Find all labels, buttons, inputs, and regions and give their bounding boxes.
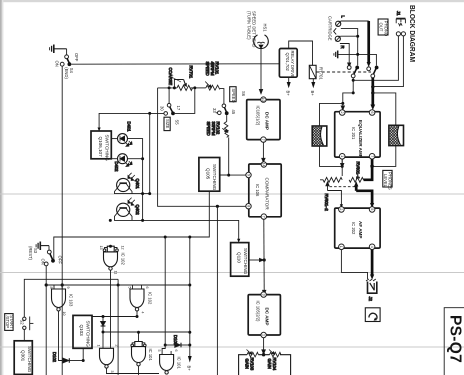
node S4on/gateA xyxy=(61,283,64,286)
svg-text:3: 3 xyxy=(110,371,114,373)
svg-text:5: 5 xyxy=(157,350,161,352)
svg-text:B+: B+ xyxy=(187,366,192,372)
wire Q103 out down xyxy=(82,348,84,360)
svg-text:12: 12 xyxy=(121,246,125,250)
wire Q402 emitter rail to Q110 xyxy=(115,213,239,239)
node EQ L in xyxy=(341,102,344,105)
node x357 xyxy=(356,35,359,38)
wire Q105 output down-left xyxy=(54,191,210,260)
wire EQ right loop bottom xyxy=(372,146,396,167)
headphone jack J2 xyxy=(366,279,377,302)
node R y92.9 xyxy=(371,91,374,94)
svg-text:D103: D103 xyxy=(173,335,178,346)
node comp out Q110 xyxy=(263,258,266,261)
svg-text:6: 6 xyxy=(370,112,374,114)
switching Q106,107 box xyxy=(91,131,111,161)
wire L coil to R muting (thick feed) xyxy=(341,20,369,22)
node x165 y345 xyxy=(164,344,167,347)
relay RY701 xyxy=(309,65,323,80)
label START/STOP xyxy=(5,314,14,331)
svg-text:10: 10 xyxy=(261,98,265,102)
svg-text:RV701: RV701 xyxy=(189,66,194,79)
switch S4 (END) xyxy=(55,49,79,80)
wire S6 common to RV102 xyxy=(226,115,228,121)
wire S3 ON contact down xyxy=(45,266,47,375)
svg-text:14: 14 xyxy=(262,163,266,167)
wire G2 output down xyxy=(136,311,138,317)
svg-text:4: 4 xyxy=(140,312,144,314)
wire S4 common to relay drive xyxy=(71,63,279,65)
svg-text:SWITCHING: SWITCHING xyxy=(212,164,217,191)
muting switch S1 R section xyxy=(367,66,379,78)
LED D401 xyxy=(118,122,133,147)
comparator IC106 box xyxy=(246,162,281,220)
node Q401 rail joins xyxy=(141,192,144,195)
svg-text:13: 13 xyxy=(99,246,103,250)
potentiometer RV601-2 xyxy=(320,177,342,211)
svg-text:SPEED: SPEED xyxy=(231,88,236,102)
label PHONES LEVEL xyxy=(383,170,393,189)
phototransistor Q401 xyxy=(117,173,140,192)
svg-text:COARSE: COARSE xyxy=(168,68,173,86)
svg-text:Q402: Q402 xyxy=(135,205,140,216)
wire DC2 out to motor block xyxy=(262,338,265,354)
node bus D402 xyxy=(141,157,144,160)
node Q402 rail left xyxy=(109,219,112,222)
node RV102 y175 xyxy=(227,174,230,177)
equalizer amp IC201 box xyxy=(335,110,380,159)
node rail S5 common riser xyxy=(193,86,196,89)
ground S4 xyxy=(50,45,67,54)
ground S3 xyxy=(36,242,49,251)
NAND gate IC102 G6 with input yoke xyxy=(131,342,153,366)
svg-text:Q105: Q105 xyxy=(206,168,211,180)
switching Q103 box xyxy=(73,315,92,348)
svg-text:SWITCHING: SWITCHING xyxy=(86,321,91,348)
diode D102 bottom-left xyxy=(52,352,83,363)
pushbutton S2 xyxy=(20,279,119,375)
node rail S5-17 riser xyxy=(168,86,171,89)
node motor block in xyxy=(262,353,265,356)
svg-text:D401: D401 xyxy=(126,122,131,133)
svg-text:D102: D102 xyxy=(52,352,57,363)
fold line 2 xyxy=(0,272,464,274)
node feed/S2bus xyxy=(117,284,120,287)
connector J1 xyxy=(396,11,406,36)
node Q402 rail bus142 xyxy=(141,219,144,222)
svg-text:SWITCHING: SWITCHING xyxy=(104,135,109,162)
wire EQ out left channel down xyxy=(341,159,344,176)
wire R coil lower to L muting xyxy=(340,44,351,67)
wire EQ left loop xyxy=(320,103,343,166)
potentiometer RV701 xyxy=(168,66,194,91)
svg-text:RY701: RY701 xyxy=(319,67,324,80)
svg-text:OUT: OUT xyxy=(379,23,384,32)
svg-text:S2: S2 xyxy=(20,320,25,326)
wire box to D402 xyxy=(111,158,117,160)
switch S6 45/33 xyxy=(212,104,236,115)
thick wire R muting out down to EQ xyxy=(370,78,375,110)
arrow into AF top-left xyxy=(340,204,343,208)
switch S5 17/30 xyxy=(160,89,182,115)
thick wiper RV601-1 to AF xyxy=(354,181,374,208)
wire AF out left to J2 xyxy=(341,250,367,279)
svg-text:4: 4 xyxy=(370,246,374,248)
diode D103 row y345 xyxy=(165,335,190,347)
DC amp IC105(1/2) box xyxy=(247,97,280,142)
svg-text:7: 7 xyxy=(262,216,266,218)
wire R to J1 xyxy=(373,36,404,87)
svg-text:1: 1 xyxy=(340,155,344,157)
node comparator pin8 bus xyxy=(216,205,219,208)
svg-text:1: 1 xyxy=(96,345,100,347)
svg-text:(TURN TABLE): (TURN TABLE) xyxy=(247,11,252,40)
speed det head HS1 xyxy=(254,24,269,49)
svg-text:Q401: Q401 xyxy=(135,179,140,190)
svg-text:2: 2 xyxy=(339,208,343,210)
NAND gate IC101 G5 xyxy=(157,350,182,375)
label S5 SIZE xyxy=(164,117,180,130)
svg-text:B+: B+ xyxy=(286,91,291,97)
node diode row Q103 xyxy=(82,359,85,362)
svg-text:IC 106: IC 106 xyxy=(255,184,260,197)
wire R loop top to hatch2 xyxy=(373,93,396,125)
svg-text:RV601–1: RV601–1 xyxy=(356,162,361,180)
bus vertical x189.8 xyxy=(189,237,191,356)
node S3on/gateA xyxy=(45,283,48,286)
wire S4 ON contact down to logic xyxy=(61,66,63,375)
svg-text:SPEED: SPEED xyxy=(205,62,210,76)
wire RV601-2 wiper to AF xyxy=(328,191,342,206)
svg-text:LEVEL: LEVEL xyxy=(383,174,388,188)
dashed mechanical link RY701 to muting switch xyxy=(317,71,372,73)
wire head to DC amp pin 10 xyxy=(259,49,262,94)
ground cartridge xyxy=(334,51,338,59)
wire x165 from S3 row down xyxy=(164,237,166,345)
svg-text:S6: S6 xyxy=(241,91,246,97)
svg-text:7: 7 xyxy=(261,139,265,141)
svg-text:Q106,107: Q106,107 xyxy=(98,137,103,158)
svg-text:J2: J2 xyxy=(368,297,373,302)
potentiometer RV103 GAIN xyxy=(245,350,259,371)
wire Q105/RV102 to comparator pin xyxy=(220,174,246,176)
node D101 y332 xyxy=(102,331,105,334)
phototransistor Q402 xyxy=(117,198,140,217)
svg-text:1: 1 xyxy=(261,334,265,336)
svg-text:Q701,702: Q701,702 xyxy=(285,53,290,72)
wire Q103 row y316.5 xyxy=(92,316,137,318)
svg-text:IC 101: IC 101 xyxy=(177,357,182,370)
wire RV102 to Q105 input xyxy=(220,137,229,175)
wire G6 feed from y332 xyxy=(138,332,140,341)
NAND gate IC102 G2 xyxy=(127,285,152,314)
svg-text:ON: ON xyxy=(55,61,60,67)
svg-text:IC 201: IC 201 xyxy=(351,127,356,140)
wire R coil to x357 node xyxy=(341,35,358,37)
node G2 out xyxy=(136,315,139,318)
NAND gate IC102 G3 with input network xyxy=(99,246,125,275)
svg-text:GAIN: GAIN xyxy=(245,359,250,369)
svg-text:5: 5 xyxy=(127,287,131,289)
wire G4 out right xyxy=(107,368,160,373)
svg-text:30: 30 xyxy=(160,106,165,111)
svg-text:IC 102: IC 102 xyxy=(121,253,126,266)
svg-text:IC 202: IC 202 xyxy=(351,222,356,235)
switching Q110 box xyxy=(231,243,249,277)
svg-text:(REST): (REST) xyxy=(28,246,33,261)
wire x149.7 riser xyxy=(149,113,151,193)
svg-text:Q103: Q103 xyxy=(79,325,84,337)
hatched eq curve box 1 xyxy=(312,126,327,146)
wire G3 out to G4 input xyxy=(110,270,112,348)
wire Q110 output to comparator out line xyxy=(249,258,264,261)
svg-text:8: 8 xyxy=(49,287,53,289)
svg-text:GAIN: GAIN xyxy=(267,359,272,369)
svg-text:33: 33 xyxy=(212,108,217,113)
svg-text:9: 9 xyxy=(246,174,250,176)
node bus189 gate feed xyxy=(188,284,191,287)
svg-text:3: 3 xyxy=(261,294,265,296)
svg-text:10: 10 xyxy=(62,312,66,316)
wire rail left branch down xyxy=(158,88,247,206)
svg-text:7: 7 xyxy=(370,155,374,157)
svg-text:CARTRIDGE: CARTRIDGE xyxy=(328,16,333,41)
node gnd row x357 xyxy=(356,53,359,56)
wire D402 to bus xyxy=(128,158,143,160)
svg-text:2: 2 xyxy=(340,112,344,114)
wire y332 row xyxy=(103,331,190,333)
node L y92.9 xyxy=(352,91,355,94)
wire speed net main rail xyxy=(158,87,177,89)
potentiometer RV104 GAIN xyxy=(267,350,281,371)
svg-text:D402: D402 xyxy=(114,162,119,173)
svg-text:SIZE: SIZE xyxy=(165,119,170,129)
svg-text:11: 11 xyxy=(114,271,118,275)
wire L coil lower to x357 xyxy=(341,29,358,66)
cartridge L coil xyxy=(336,16,346,27)
svg-text:COMPARATOR: COMPARATOR xyxy=(265,178,270,211)
label S6 SPEED xyxy=(230,87,246,103)
node G6 feed xyxy=(137,331,140,334)
svg-text:DC AMP: DC AMP xyxy=(265,308,270,326)
node EQ bl pin xyxy=(341,165,344,168)
wire relay drive to RY701 xyxy=(289,41,313,65)
node G3 input xyxy=(109,245,112,248)
potentiometer RV601-1 xyxy=(349,162,363,183)
svg-text:6: 6 xyxy=(145,287,149,289)
svg-text:RV601–2: RV601–2 xyxy=(324,194,329,212)
potentiometer RV101 45RPM SPEED xyxy=(205,62,220,91)
svg-text:IC105(1/2): IC105(1/2) xyxy=(256,106,261,126)
B+ arrow bottom bus189 xyxy=(187,356,192,371)
diode D101 vertical xyxy=(101,317,106,346)
page corner border xyxy=(444,308,464,375)
wire G1 out down to bottom row xyxy=(59,311,63,361)
wire Q401 emitter rail xyxy=(115,188,150,193)
svg-text:IC 103: IC 103 xyxy=(69,294,74,307)
hatched eq curve box 2 xyxy=(389,125,404,145)
fold line 1 xyxy=(0,193,464,195)
potentiometer RV102 33RPM SPEED xyxy=(206,122,229,138)
muting switch S1 L section xyxy=(347,66,359,78)
DC amp IC105(2/2) box xyxy=(248,292,280,338)
svg-text:SWITCHING: SWITCHING xyxy=(27,346,32,373)
B+ arrow at RY701 xyxy=(310,79,315,97)
svg-text:OFF: OFF xyxy=(74,53,79,62)
node D101 top xyxy=(102,315,105,318)
fold line 3 xyxy=(0,346,464,348)
wire L out to J1 xyxy=(353,36,398,80)
bus vertical x217.4 xyxy=(216,206,218,375)
arrow into EQ top-left pin xyxy=(341,103,344,110)
node RV701 left xyxy=(173,86,176,89)
B+ arrow at relay drive xyxy=(286,77,291,96)
motor block box xyxy=(239,355,291,375)
svg-text:9: 9 xyxy=(66,287,70,289)
svg-text:/STOP: /STOP xyxy=(5,316,10,329)
svg-text:45: 45 xyxy=(231,110,236,115)
svg-text:OFF: OFF xyxy=(58,256,63,265)
svg-text:J1: J1 xyxy=(396,11,401,16)
thick wire down to muting R xyxy=(367,21,371,67)
wire DC1 pin7 to comparator pin14 xyxy=(262,142,265,162)
wire rail RV701 to RV101 xyxy=(191,87,206,89)
scan edge top xyxy=(0,0,464,2)
node EQ br pin loop xyxy=(370,165,373,168)
switching Q105 box xyxy=(199,158,220,192)
NAND gate IC101 G4 xyxy=(96,345,118,373)
node bus189 y345 xyxy=(188,344,191,347)
node bus189 y332 xyxy=(188,331,191,334)
wire L to EQ pin in xyxy=(343,93,353,104)
wire G6 out down xyxy=(138,366,140,375)
wire box to D401 xyxy=(111,138,117,140)
switching Q301 box xyxy=(14,341,32,375)
svg-text:Q110: Q110 xyxy=(237,252,242,263)
node bus189 start xyxy=(188,236,191,239)
cartridge R coil xyxy=(335,36,345,48)
cartridge chevron xyxy=(334,28,337,34)
svg-text:EQUALIZER AMP: EQUALIZER AMP xyxy=(358,120,363,158)
arrow into Q106 box xyxy=(98,128,101,132)
svg-text:S5: S5 xyxy=(175,120,180,126)
wire S5 common riser xyxy=(175,89,195,113)
wire rail to S6 xyxy=(220,89,224,104)
svg-text:AF AMP: AF AMP xyxy=(358,221,363,238)
dashed gang link RV601 xyxy=(330,186,356,188)
svg-text:Q301: Q301 xyxy=(20,350,25,362)
svg-text:IC 101: IC 101 xyxy=(148,349,153,362)
svg-text:IC 102: IC 102 xyxy=(148,292,153,305)
svg-text:PS-Q7: PS-Q7 xyxy=(447,315,464,363)
wire comparator pin out to DC2 xyxy=(263,219,266,294)
svg-text:6: 6 xyxy=(174,350,178,352)
wire x165 to G5 input xyxy=(162,345,165,351)
svg-text:R: R xyxy=(340,46,345,49)
svg-text:B+: B+ xyxy=(310,91,315,97)
svg-text:SPEED: SPEED xyxy=(206,122,211,136)
LED D402 xyxy=(114,154,132,172)
svg-text:DC AMP: DC AMP xyxy=(265,112,270,130)
svg-text:BLOCK DIAGRAM: BLOCK DIAGRAM xyxy=(408,5,417,62)
node x165 top xyxy=(164,236,167,239)
wire D401 D402 cathode bus xyxy=(128,139,143,221)
AF amp IC202 box xyxy=(335,207,380,250)
svg-text:17: 17 xyxy=(176,106,181,111)
node L out J1 tap xyxy=(352,79,355,82)
wire L muting out down xyxy=(352,78,354,93)
scan edge left xyxy=(0,0,2,375)
svg-text:IC 105(2/2): IC 105(2/2) xyxy=(256,301,261,323)
switch S3 (REST) xyxy=(28,246,63,266)
thick wire EQ out right channel xyxy=(364,159,375,180)
svg-text:8: 8 xyxy=(246,205,250,207)
svg-text:SWITCHING: SWITCHING xyxy=(243,248,248,275)
wire S5-30 row to switching Q106 xyxy=(99,113,164,128)
svg-text:HS1: HS1 xyxy=(263,24,268,33)
svg-text:1: 1 xyxy=(339,246,343,248)
relay drive box Q701,702 xyxy=(279,49,297,79)
arrow into Q110 xyxy=(237,239,240,243)
headphones icon box xyxy=(365,308,380,322)
node R y86.8 xyxy=(371,85,374,88)
wire cartridge ground to muting R fixed xyxy=(338,54,377,65)
wire loop up to EQ pin4 xyxy=(341,159,343,166)
svg-text:(END): (END) xyxy=(64,67,69,79)
NAND gate IC103 G1 xyxy=(49,285,74,316)
phono out box xyxy=(378,19,388,37)
thick wire AF out right to J2 xyxy=(370,250,374,280)
node Q401 rail x149.7 xyxy=(148,192,151,195)
svg-text:5: 5 xyxy=(370,208,374,210)
svg-text:ON: ON xyxy=(41,259,46,265)
wire gate feed line y285 xyxy=(46,284,190,286)
node S5 row x149.7 xyxy=(148,112,151,115)
